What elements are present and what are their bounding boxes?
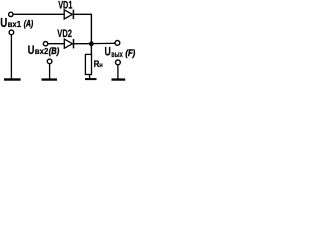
wire W1: terminal A to VD1 anode xyxy=(13,13,64,15)
wire W10: output return down to ground xyxy=(117,65,119,79)
ground bar 1 xyxy=(4,78,21,80)
wire W4: VD2 cathode to junction xyxy=(74,43,93,45)
svg-text:U: U xyxy=(0,16,7,30)
svg-text:(F): (F) xyxy=(125,48,135,59)
terminal B return (circle below Uвх2 label) xyxy=(47,59,52,64)
terminal F (output circle on wire) xyxy=(115,41,120,46)
diode VD1 xyxy=(64,10,73,19)
terminal A return (circle below Uвх1 label) xyxy=(9,30,14,35)
wire W5: junction to output terminal xyxy=(91,42,115,44)
wire W7: resistor bottom to ground xyxy=(89,75,91,79)
junction node xyxy=(89,41,94,46)
svg-text:U: U xyxy=(28,43,35,57)
wire W6: junction down to resistor top xyxy=(90,44,92,55)
wire W3: terminal B to VD2 anode xyxy=(48,43,64,45)
svg-text:вых: вых xyxy=(111,50,123,59)
wire W8: terminal A return down to ground xyxy=(10,35,12,79)
svg-text:VD1: VD1 xyxy=(58,0,72,11)
diode VD2 xyxy=(64,39,73,48)
svg-text:н: н xyxy=(99,62,103,69)
label Rн xyxy=(94,59,103,70)
wire W2: VD1 cathode right then down to junction xyxy=(74,14,92,44)
wire W9: terminal B return down to ground xyxy=(49,64,51,79)
label Uвых(F) xyxy=(105,45,136,60)
terminal B (Uвх2 input circle) xyxy=(43,42,47,46)
ground bar 4 xyxy=(112,78,126,80)
svg-text:(A): (A) xyxy=(24,19,33,30)
label Uвх1(A) xyxy=(0,16,33,30)
svg-text:(B): (B) xyxy=(49,46,59,57)
svg-text:VD2: VD2 xyxy=(57,28,72,40)
svg-text:вх1: вх1 xyxy=(8,20,22,29)
resistor Rн (load) xyxy=(85,54,91,74)
label Uвх2(B) xyxy=(28,43,60,57)
svg-text:U: U xyxy=(105,45,111,59)
terminal F return (circle below Uвых label) xyxy=(116,60,121,65)
terminal A (Uвх1 input, top-left circle) xyxy=(9,12,13,16)
svg-text:вх2: вх2 xyxy=(35,47,49,56)
ground bar 2 xyxy=(42,78,58,80)
ground bar 3 xyxy=(85,78,97,80)
